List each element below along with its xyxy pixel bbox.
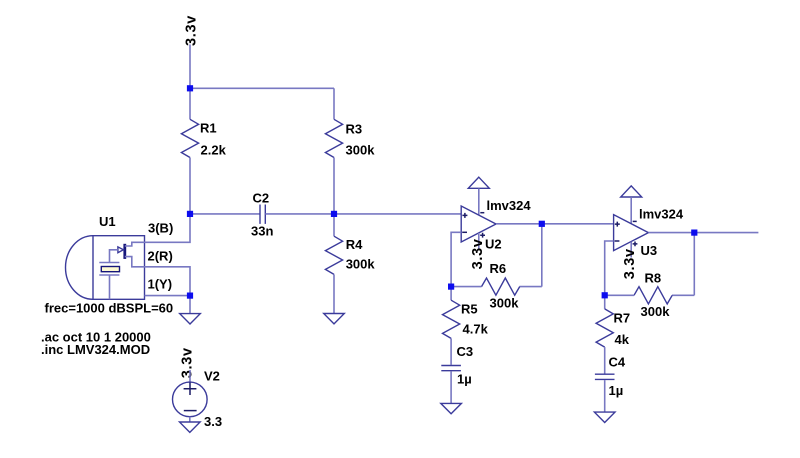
resistor R4: [325, 236, 342, 274]
resistor R8: [634, 287, 672, 304]
transistor gate arrow: [118, 247, 124, 253]
svg-text:300k: 300k: [641, 304, 671, 319]
wire main line right segment: [265, 213, 461, 215]
svg-text:U3: U3: [641, 243, 658, 258]
wire R8 to J8: [605, 294, 634, 296]
electret capacitor bottom plate: [99, 274, 119, 276]
svg-text:R3: R3: [346, 122, 363, 137]
U2 bottom pin plus sign: [480, 233, 485, 238]
svg-text:300k: 300k: [346, 257, 376, 272]
svg-text:4.7k: 4.7k: [463, 322, 489, 337]
wire gate to electret plate: [110, 250, 118, 263]
wire R1 top lead: [189, 88, 191, 119]
U3 top pin minus sign: [633, 220, 637, 222]
svg-text:33n: 33n: [251, 224, 273, 239]
capacitor C4: [595, 374, 615, 379]
electret element rectangle: [101, 267, 119, 272]
wire R5 top lead: [450, 287, 452, 301]
svg-text:C4: C4: [609, 355, 626, 370]
U3 minus input sign: [615, 240, 620, 242]
wire U3 V- pin: [630, 197, 632, 224]
ground C4: [594, 412, 615, 422]
wire feedback to R8: [672, 294, 694, 296]
junction J4 U1 ground: [187, 293, 193, 299]
voltage source V2: [173, 382, 208, 417]
svg-text:4k: 4k: [615, 332, 630, 347]
wire R7 to C4: [604, 347, 606, 373]
ground C3: [441, 403, 462, 413]
wire R6 to J6: [451, 286, 481, 288]
wire R7 top lead: [604, 295, 606, 309]
U2 bottom pin wire: [478, 233, 480, 249]
ground U1: [180, 314, 201, 324]
wire top horizontal to R3: [190, 87, 334, 89]
svg-text:R7: R7: [614, 311, 631, 326]
svg-text:lmv324: lmv324: [487, 198, 532, 213]
svg-text:lmv324: lmv324: [639, 207, 684, 222]
ground R4: [324, 314, 345, 324]
wire V2 top stub: [189, 370, 191, 382]
svg-text:C2: C2: [253, 191, 270, 206]
wire U2 output to U3: [496, 223, 613, 225]
wire R4 top lead: [333, 214, 335, 236]
svg-text:R5: R5: [461, 302, 478, 317]
microphone U1 body: [66, 236, 145, 300]
resistor R6: [482, 278, 520, 295]
wire main line left segment: [190, 213, 260, 215]
U2 top pin minus sign: [480, 212, 484, 214]
capacitor C2: [260, 205, 265, 224]
wire U2 feedback vertical: [541, 224, 543, 287]
wire feedback to R6: [520, 286, 542, 288]
transistor channel bar inside U1: [123, 244, 126, 259]
junction J6 R5/R6: [448, 284, 454, 290]
resistor R3: [325, 119, 342, 157]
wire top 3.3v stub: [189, 45, 191, 89]
svg-text:R4: R4: [346, 237, 363, 252]
resistor R5: [443, 300, 460, 338]
wire electret to case bottom: [109, 275, 111, 299]
V2 minus sign: [184, 410, 197, 412]
svg-text:1µ: 1µ: [609, 383, 624, 398]
svg-text:U2: U2: [485, 237, 502, 252]
svg-text:3.3v: 3.3v: [470, 238, 486, 269]
junction J1 top: [187, 85, 193, 91]
svg-text:3.3: 3.3: [204, 414, 222, 429]
svg-text:3.3v: 3.3v: [183, 15, 199, 46]
wire U2 V- pin: [478, 189, 480, 216]
svg-text:300k: 300k: [490, 296, 520, 311]
U2 minus input sign: [462, 231, 467, 233]
wire C3 to ground: [450, 371, 452, 403]
wire U1 pin1: [145, 295, 191, 297]
svg-text:R6: R6: [490, 261, 507, 276]
resistor R7: [596, 309, 613, 347]
capacitor C3: [441, 366, 461, 371]
svg-text:.inc LMV324.MOD: .inc LMV324.MOD: [41, 342, 150, 357]
junction J2 main line: [187, 211, 193, 217]
U3 bottom pin wire: [630, 242, 632, 258]
junction J3 R3/R4: [331, 211, 337, 217]
power flag above U3: [621, 186, 642, 197]
wire J6 to U2 minus input: [451, 232, 461, 286]
wire V2 bottom stub: [189, 417, 191, 422]
power flag above U2: [468, 177, 489, 188]
svg-text:2.2k: 2.2k: [201, 143, 227, 158]
svg-text:2(R): 2(R): [148, 249, 173, 264]
junction J7 U3 output: [691, 230, 697, 236]
U2 plus input sign: [462, 213, 467, 218]
svg-text:3(B): 3(B): [148, 221, 173, 236]
svg-text:1(Y): 1(Y): [148, 277, 173, 292]
transistor source lead: [125, 257, 145, 267]
junction J8 R7/R8: [602, 292, 608, 298]
svg-text:C3: C3: [457, 344, 474, 359]
U3 bottom pin plus sign: [633, 242, 638, 247]
wire R3 top lead: [333, 88, 335, 119]
svg-text:3.3v: 3.3v: [180, 347, 196, 378]
svg-text:1µ: 1µ: [457, 372, 472, 387]
op-amp U2: [461, 206, 496, 242]
junction J5 U2 output: [539, 221, 545, 227]
svg-text:V2: V2: [204, 369, 220, 384]
wire U3 output: [648, 232, 758, 234]
svg-text:3.3v: 3.3v: [622, 248, 638, 279]
wire pin1 junction to ground: [189, 296, 191, 314]
wire C4 to ground: [604, 380, 606, 412]
wire J8 to U3 minus input: [605, 241, 614, 295]
ground V2: [180, 422, 201, 432]
wire R5 to C3: [450, 338, 452, 364]
V2 plus sign: [184, 382, 197, 395]
wire U1 pin2 down to pin1 net: [145, 267, 191, 296]
svg-text:R8: R8: [645, 271, 662, 286]
wire R4 bottom to ground: [333, 274, 335, 313]
svg-text:frec=1000 dBSPL=60: frec=1000 dBSPL=60: [45, 301, 174, 316]
wire R3 bottom: [333, 158, 335, 214]
U3 plus input sign: [615, 222, 620, 227]
svg-text:U1: U1: [99, 214, 116, 229]
electret capacitor top plate: [99, 262, 119, 264]
wire U3 feedback vertical: [693, 233, 695, 296]
svg-text:R1: R1: [200, 121, 217, 136]
op-amp U3: [614, 215, 649, 251]
wire U1 pin3 to main junction: [145, 214, 191, 242]
transistor drain lead: [125, 242, 145, 246]
svg-text:300k: 300k: [346, 143, 376, 158]
wire R1 bottom to main line: [189, 158, 191, 214]
resistor R1: [181, 119, 198, 157]
